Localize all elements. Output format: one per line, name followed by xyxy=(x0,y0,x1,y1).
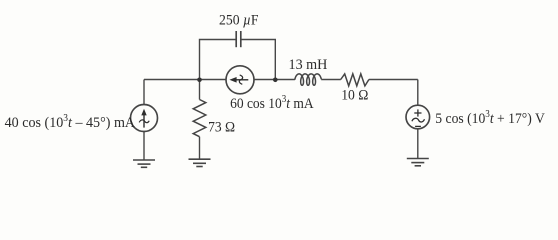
capacitor C1 250 uF plates xyxy=(236,31,241,47)
inductor L1 13 mH xyxy=(295,74,322,85)
ground middle xyxy=(189,159,211,166)
current source I1 40 mA circle xyxy=(131,105,158,132)
node B junction dot xyxy=(273,78,278,83)
current source I1 arrow xyxy=(139,109,149,128)
voltage source V1 minus sign xyxy=(415,125,421,127)
wire 73-ohm branch bottom xyxy=(199,137,201,160)
wire rail coil-to-resistor xyxy=(321,79,341,81)
wire capacitor loop left xyxy=(200,40,236,81)
svg-text:40 cos (103t – 45°) mA: 40 cos (103t – 45°) mA xyxy=(5,113,136,131)
svg-text:60 cos 103t mA: 60 cos 103t mA xyxy=(230,95,314,113)
node A junction dot xyxy=(197,78,202,83)
wire main rail left xyxy=(144,79,295,81)
wire rail resistor-to-right xyxy=(369,79,418,81)
voltage source V1 plus sign xyxy=(414,109,421,116)
svg-text:73 Ω: 73 Ω xyxy=(208,119,235,136)
wire left branch bottom xyxy=(143,132,145,161)
voltage source V1 circle xyxy=(406,105,430,129)
svg-text:10 Ω: 10 Ω xyxy=(341,87,368,104)
wire right branch bottom xyxy=(417,129,419,159)
svg-text:5 cos (103t + 17°) V: 5 cos (103t + 17°) V xyxy=(435,108,545,127)
resistor R2 10 ohm xyxy=(341,74,369,86)
ground right xyxy=(407,159,429,166)
svg-text:13 mH: 13 mH xyxy=(289,57,328,73)
current source I2 60 mA circle xyxy=(226,66,254,94)
current source I2 arrow xyxy=(229,75,248,84)
wire 73-ohm branch top xyxy=(199,80,201,100)
wire left branch top xyxy=(143,80,145,105)
wire capacitor loop right xyxy=(241,40,275,81)
voltage source V1 tilde xyxy=(412,118,425,122)
wire right branch top xyxy=(417,80,419,106)
svg-text:250 µF: 250 µF xyxy=(219,12,259,29)
ground left xyxy=(133,160,155,167)
resistor R1 73 ohm xyxy=(193,100,206,137)
